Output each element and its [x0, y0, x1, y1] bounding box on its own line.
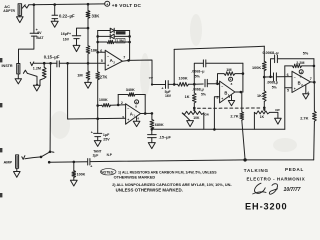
pin 4 ground B1 [228, 95, 234, 106]
svg-text:cw: cw [204, 113, 209, 117]
svg-text:INSTR: INSTR [2, 64, 13, 68]
svg-text:2: 2 [121, 101, 123, 105]
svg-text:+: + [127, 118, 129, 122]
svg-text:.15–μF: .15–μF [159, 135, 172, 140]
svg-text:8: 8 [135, 105, 137, 109]
label C10 .0068uF 5% [267, 80, 279, 89]
svg-text:340K: 340K [126, 88, 135, 92]
label 100K [99, 98, 108, 102]
resistor R11 1M feedback [216, 72, 243, 85]
dashed gang line [198, 107, 262, 109]
svg-text:1μF: 1μF [103, 133, 110, 137]
capacitor C11 2uF tant [88, 159, 93, 169]
node R3 tap [43, 62, 46, 65]
wire B1 output riser [242, 63, 245, 92]
resistor R3 1.2M [40, 63, 46, 85]
label +9 VOLT DC [112, 3, 142, 8]
pin 3 label [122, 116, 124, 120]
label .15uF [159, 135, 172, 140]
label 100K out [77, 172, 86, 176]
ground under R4 [85, 82, 92, 88]
node A1 output [151, 112, 154, 115]
op-amp B2 [292, 71, 311, 92]
svg-text:2.7K: 2.7K [300, 116, 308, 121]
wire J3 tip tick [22, 156, 25, 160]
svg-text:16μF+: 16μF+ [61, 32, 71, 36]
resistor R12 1K [193, 84, 197, 108]
pin 7 label [123, 56, 125, 60]
svg-text:.0068,μ: .0068,μ [267, 80, 279, 84]
svg-text:1M: 1M [77, 73, 82, 78]
capacitor C6 5uF [166, 81, 178, 89]
svg-text:UNLESS OTHERWISE MARKED.: UNLESS OTHERWISE MARKED. [116, 187, 183, 192]
svg-text:2.2M: 2.2M [296, 61, 304, 65]
wire bypass riser [49, 63, 52, 151]
node Vbias [87, 27, 90, 30]
resistor R17 2.7K [313, 82, 317, 160]
node bias join [87, 62, 90, 65]
svg-text:2.7K: 2.7K [230, 114, 238, 119]
svg-text:4: 4 [137, 116, 139, 120]
label 27K [100, 75, 108, 80]
wire A2 out to C6 [129, 60, 166, 85]
ground under C4 [148, 143, 155, 149]
title EH-3200 [245, 202, 288, 212]
capacitor C10 .0068uF series [264, 73, 292, 81]
ground under J2 [15, 74, 21, 84]
label 2.7K B1 [230, 114, 238, 119]
svg-text:100K: 100K [77, 172, 86, 176]
op-amp A2 [105, 50, 122, 70]
node pin3 bias junction [96, 117, 99, 120]
label 2.2M [296, 61, 304, 65]
svg-text:AC: AC [4, 4, 10, 9]
node B1 input [193, 83, 196, 86]
label AMP [4, 160, 13, 165]
resistor R5 1.5M [98, 40, 130, 43]
node ground join [36, 84, 38, 86]
label 2.7K B2 [300, 116, 308, 121]
node output mix [243, 158, 246, 161]
label C8 .0068uF 5% [192, 87, 206, 96]
svg-text:1K: 1K [257, 94, 262, 98]
svg-text:5: 5 [101, 59, 103, 63]
pin 3 label B1 [216, 95, 218, 99]
label 16uF 16V [61, 32, 71, 42]
wire input [34, 62, 57, 64]
resistor R2 18K [86, 28, 90, 63]
svg-text:B: B [298, 81, 301, 86]
svg-text:TALKING: TALKING [244, 168, 269, 173]
node battery tap [33, 3, 36, 6]
label 340K [126, 88, 135, 92]
pin 6 label [100, 49, 102, 53]
resistor R16 2.2M feedback [285, 64, 314, 129]
resistor R9 680K [150, 113, 154, 129]
svg-text:EH-3200: EH-3200 [245, 202, 288, 212]
label 1K B2 [257, 94, 262, 98]
date [284, 187, 302, 193]
svg-text:A: A [130, 111, 133, 116]
svg-text:AMP: AMP [4, 160, 13, 165]
svg-text:27K: 27K [100, 75, 108, 80]
svg-text:25V: 25V [103, 138, 110, 142]
svg-text:100K: 100K [252, 66, 261, 70]
wire +9V rail [29, 3, 105, 6]
capacitor C1 0.22uF [52, 5, 58, 22]
svg-text:10/7/77: 10/7/77 [284, 187, 302, 193]
label 0.15uF [44, 55, 60, 60]
svg-text:5%: 5% [303, 51, 309, 55]
label 18K [91, 48, 98, 53]
pin 2 label B1 [216, 80, 218, 84]
svg-text:9V: 9V [37, 31, 42, 35]
wire pin6 stub [98, 51, 106, 53]
capacitor C2 16uF [72, 36, 80, 46]
svg-text:1K: 1K [185, 95, 190, 99]
svg-text:2μF: 2μF [93, 153, 99, 157]
capacitor C8 .0068uF series [194, 79, 219, 86]
svg-text:0.0068–μ: 0.0068–μ [263, 51, 280, 55]
svg-text:ADPTR: ADPTR [3, 9, 15, 13]
label 1M [77, 73, 82, 78]
wire A2 output [122, 59, 128, 62]
node Vref bus left [151, 128, 154, 131]
svg-text:+: + [221, 97, 223, 101]
pin 4 ground B2 [303, 85, 310, 99]
node B2 output [313, 59, 316, 84]
resistor R8 340K [128, 93, 135, 97]
node A1 input junction [96, 104, 99, 107]
wire Vref bus [152, 128, 285, 131]
capacitor C3 0.15uF [57, 61, 59, 67]
resistor R4 1M [86, 63, 90, 82]
svg-text:N.P: N.P [107, 153, 113, 157]
label 33K [92, 13, 101, 18]
svg-text:6: 6 [287, 73, 289, 77]
resistor R1 33K [86, 4, 90, 28]
resistor R18 100K out [72, 162, 76, 180]
pin 5 label B2 [287, 89, 289, 93]
label 1K CW VR2 [260, 108, 280, 119]
notes line 2 [114, 174, 156, 179]
svg-text:2) ALL NONPOLARIZED CAPACITORS: 2) ALL NONPOLARIZED CAPACITORS ARE MYLAR… [112, 183, 232, 187]
label 0.22uF [59, 14, 75, 19]
pin 2 label [121, 101, 123, 105]
node VR1 wiper [193, 107, 196, 110]
svg-text:–: – [221, 84, 223, 88]
battery B1 9V [30, 28, 44, 40]
label 100K B2 [252, 66, 261, 70]
svg-text:16V: 16V [63, 38, 70, 42]
capacitor C9 0.0068uF feedback [269, 55, 314, 78]
node feedback land [144, 112, 147, 115]
wire B1 output [235, 91, 243, 93]
node C1 tap [53, 3, 56, 6]
label 1M feedback [226, 68, 231, 72]
terminal +9V DC [104, 1, 109, 6]
wire battery riser [33, 5, 35, 34]
svg-text:680K: 680K [155, 123, 164, 127]
label 100K interstage [179, 77, 188, 81]
svg-text:1.5M: 1.5M [117, 39, 124, 43]
pin 6 label B2 [287, 73, 289, 77]
diode D1 [98, 28, 130, 33]
label C7 .0068uF 5% [191, 69, 204, 78]
wire output line [49, 160, 314, 162]
svg-text:+: + [91, 131, 93, 135]
node input riser tap [66, 62, 69, 65]
wire A1 pin3 [68, 117, 126, 120]
svg-text:1.2M: 1.2M [33, 67, 41, 71]
node A2 output [127, 59, 130, 62]
sprocket marks left edge [0, 58, 2, 197]
label 1K [185, 95, 190, 99]
ground under VR2 [275, 118, 282, 124]
svg-text:ELECTRO - HARMONIX: ELECTRO - HARMONIX [247, 176, 306, 181]
label TANT 2uF NP [93, 149, 113, 157]
svg-text:–: – [127, 106, 129, 110]
wire B1 pin3 to Vref [214, 97, 219, 130]
wire J2 ring contact [23, 70, 37, 85]
ground under R18 [70, 180, 77, 186]
label AC ADPTR [3, 4, 15, 13]
node B1 output [240, 91, 243, 94]
node VR2 wiper [263, 107, 266, 110]
wire riser to A1 pin3 [67, 63, 69, 119]
svg-text:cw: cw [149, 76, 154, 80]
svg-text:3: 3 [122, 116, 124, 120]
svg-text:cw: cw [275, 108, 280, 112]
wire A1 feedback [118, 95, 145, 114]
op-amp A1 [126, 104, 141, 124]
label INSTR [2, 64, 13, 68]
node corner blob [151, 83, 153, 85]
jack J3 amp out [16, 155, 19, 168]
notes line 1 [118, 171, 217, 175]
label 1.2M [33, 67, 41, 71]
wire to C2 [77, 28, 89, 36]
svg-text:7: 7 [123, 56, 125, 60]
power pin plus8 B2 [299, 70, 303, 79]
svg-text:+: + [106, 3, 108, 7]
ground under R3 [33, 85, 40, 91]
node A1 pin2 tap [117, 104, 120, 107]
label 1uF 25V [103, 133, 110, 141]
svg-text:0.15–μF: 0.15–μF [44, 55, 60, 60]
svg-text:6: 6 [100, 49, 102, 53]
svg-text:+: + [230, 78, 232, 82]
potentiometer VR2 1K [254, 108, 278, 129]
capacitor C5 1uF 25V [91, 106, 102, 141]
ground under VR1 [187, 121, 194, 127]
svg-text:5: 5 [287, 89, 289, 93]
wire A1 output [141, 112, 152, 114]
jack J1 AC adapter [18, 4, 22, 16]
footswitch SW1 [40, 151, 54, 164]
svg-text:7: 7 [310, 77, 312, 81]
title ELECTRO-HARMONIX [247, 176, 306, 181]
resistor R6 27K [96, 52, 100, 105]
label 10K CW [193, 113, 209, 120]
label 5uF 16V [161, 87, 171, 98]
ground under J3 [14, 168, 21, 177]
jack J2 instrument [17, 64, 20, 74]
node R18 tap [73, 161, 76, 164]
svg-text:5%: 5% [272, 85, 277, 89]
pin 7 label B2 [310, 77, 312, 81]
label diode type smudge [116, 31, 126, 34]
node bypass tap [49, 62, 52, 65]
svg-text:100K: 100K [99, 98, 108, 102]
svg-text:–: – [294, 75, 296, 79]
svg-text:5%: 5% [201, 93, 206, 97]
resistor R14 100K top [262, 46, 266, 77]
wire feedback left riser [96, 31, 99, 54]
node B2 input [263, 76, 266, 79]
label C9 0.0068uF 5% [263, 51, 309, 55]
resistor R7 100K [98, 104, 126, 107]
wire J2 tip tick [30, 62, 34, 66]
resistor R15 1K B2 [263, 77, 267, 108]
svg-text:1M: 1M [226, 68, 231, 72]
label 1.5M boxed [116, 38, 125, 43]
power pin plus8 B1 [229, 77, 233, 86]
svg-text:+: + [161, 87, 163, 91]
svg-text:+: + [294, 87, 296, 91]
wire J3 to switch [25, 157, 41, 159]
notes heading [100, 169, 116, 175]
capacitor C4 .15uF [148, 129, 157, 142]
title TALKING PEDAL [244, 167, 304, 173]
ground under C5 [94, 141, 101, 147]
notes line 4 [116, 187, 183, 192]
wire feedback right riser [128, 31, 131, 61]
svg-text:0.22–μF: 0.22–μF [59, 14, 75, 19]
label cw smudge [149, 76, 154, 80]
node R1 tap [87, 3, 90, 6]
svg-text:OTHERWISE MARKED: OTHERWISE MARKED [114, 174, 156, 179]
pin 4 ground A1 [133, 116, 140, 126]
svg-text:+: + [90, 164, 92, 168]
svg-text:NOTES:: NOTES: [101, 170, 114, 174]
ground under C1 [51, 21, 58, 27]
svg-text:B: B [224, 91, 227, 96]
wire battery minus to INSTR ring [19, 36, 34, 63]
svg-text:.0068–μ: .0068–μ [191, 69, 204, 73]
svg-text:BAT: BAT [36, 36, 44, 40]
wire C3 to A2 pin5 [59, 62, 105, 64]
signature [253, 183, 278, 194]
svg-text:16V: 16V [165, 94, 172, 98]
power pin plus8 A1 [135, 100, 139, 109]
svg-text:5%: 5% [195, 75, 201, 79]
svg-text:33K: 33K [92, 13, 101, 18]
ground under C2 [73, 45, 80, 51]
notes line 3 [112, 183, 232, 187]
diode D2 [98, 34, 130, 39]
svg-text:1K: 1K [260, 115, 265, 119]
svg-text:PEDAL: PEDAL [285, 167, 304, 172]
capacitor C7 .0068uF feedback [194, 60, 243, 84]
resistor R10 100K [178, 82, 195, 86]
wire top bus riser [173, 49, 176, 85]
svg-text:100K: 100K [179, 77, 188, 81]
op-amp B1 [220, 81, 235, 103]
wire top bus [174, 46, 264, 49]
label 680K [155, 123, 164, 127]
pin 5 label [101, 59, 103, 63]
svg-text:+9 VOLT DC: +9 VOLT DC [112, 3, 142, 8]
resistor R13 2.7K [240, 92, 245, 160]
potentiometer VR1 10K [182, 108, 204, 129]
svg-text:10K: 10K [193, 116, 200, 120]
wire B2 output [311, 81, 315, 83]
wire AC jack tip tick [22, 5, 29, 8]
ground under AC jack [17, 15, 24, 22]
